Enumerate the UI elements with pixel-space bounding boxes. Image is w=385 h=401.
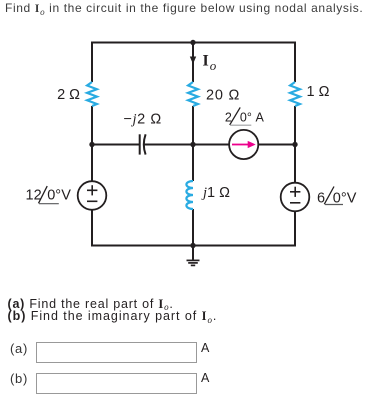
answer row a bbox=[10, 341, 28, 356]
current Io arrowhead bbox=[190, 57, 196, 65]
node right middle bbox=[292, 142, 297, 147]
answer row b bbox=[10, 371, 28, 386]
wire middle rail upper bbox=[192, 43, 194, 83]
resistor 2ohm bbox=[87, 82, 97, 106]
wire middle horizontal source-to-right bbox=[258, 144, 295, 146]
voltage source 6V circle bbox=[281, 183, 310, 212]
title bbox=[5, 1, 363, 16]
svg-text:2 Ω: 2 Ω bbox=[57, 87, 80, 103]
svg-text:0°: 0° bbox=[240, 111, 252, 125]
node center middle bbox=[190, 142, 195, 147]
svg-text:V: V bbox=[347, 191, 357, 207]
label 2 angle 0 A bbox=[225, 107, 265, 125]
node top middle bbox=[190, 40, 195, 45]
voltage source 12V plus-minus bbox=[87, 185, 97, 201]
question b text bbox=[8, 310, 218, 324]
voltage source 12V circle bbox=[78, 181, 107, 210]
svg-text:6: 6 bbox=[317, 191, 325, 207]
inductor j1ohm bbox=[186, 181, 193, 209]
voltage source 6V plus-minus bbox=[290, 187, 300, 203]
svg-text:20 Ω: 20 Ω bbox=[206, 88, 240, 104]
wire middle rail lower bbox=[192, 209, 194, 246]
wire middle horizontal cap-to-node bbox=[144, 144, 193, 146]
svg-text:0°: 0° bbox=[333, 191, 347, 207]
wire right rail middle bbox=[294, 106, 296, 183]
wire left rail upper bbox=[91, 42, 93, 83]
svg-text:V: V bbox=[61, 188, 71, 204]
ground bbox=[187, 246, 200, 266]
svg-text:1 Ω: 1 Ω bbox=[307, 84, 330, 100]
wire right rail upper bbox=[294, 42, 296, 83]
wire middle rail mid bbox=[192, 106, 194, 181]
wire middle horizontal node-to-source bbox=[193, 144, 230, 146]
node bottom middle bbox=[190, 243, 195, 248]
label 6 angle 0 V bbox=[317, 187, 357, 207]
svg-text:I: I bbox=[203, 52, 209, 69]
wire left rail middle bbox=[91, 106, 93, 181]
wire right rail lower bbox=[294, 211, 296, 246]
svg-text:o: o bbox=[210, 58, 217, 73]
svg-text:j1 Ω: j1 Ω bbox=[201, 185, 230, 201]
label 12 angle 0 V bbox=[26, 186, 72, 204]
capacitor C -j2ohm plates bbox=[140, 134, 146, 154]
wire middle horizontal left bbox=[92, 144, 140, 146]
current source arrow bbox=[232, 141, 256, 148]
resistor 20ohm bbox=[188, 82, 198, 106]
node left middle bbox=[89, 142, 94, 147]
svg-text:−j2 Ω: −j2 Ω bbox=[124, 112, 162, 128]
svg-text:0°: 0° bbox=[47, 188, 61, 204]
wire bottom bbox=[91, 245, 296, 247]
wire top bbox=[91, 42, 296, 44]
wire left rail lower bbox=[91, 210, 93, 247]
svg-text:A: A bbox=[256, 111, 265, 125]
resistor 1ohm bbox=[290, 82, 300, 106]
current source 2A circle bbox=[229, 130, 258, 159]
question a text bbox=[8, 298, 174, 312]
